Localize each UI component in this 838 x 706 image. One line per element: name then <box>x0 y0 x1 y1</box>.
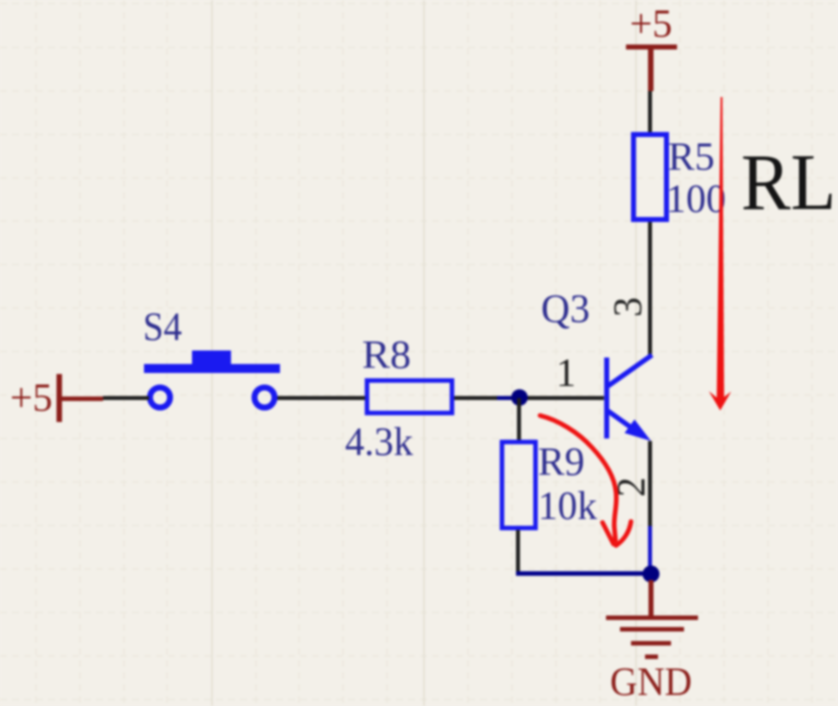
svg-text:S4: S4 <box>143 304 182 349</box>
svg-text:R9: R9 <box>538 439 585 484</box>
svg-text:R5: R5 <box>668 134 715 179</box>
svg-text:RL: RL <box>741 139 836 227</box>
svg-text:+5: +5 <box>10 375 53 420</box>
svg-text:GND: GND <box>610 659 692 704</box>
svg-text:100: 100 <box>666 176 726 221</box>
svg-text:Q3: Q3 <box>541 286 590 331</box>
svg-text:10k: 10k <box>538 483 597 528</box>
svg-text:R8: R8 <box>362 332 411 377</box>
svg-text:1: 1 <box>556 350 576 395</box>
svg-text:4.3k: 4.3k <box>345 419 413 464</box>
svg-text:+5: +5 <box>630 1 673 46</box>
svg-text:3: 3 <box>605 297 650 317</box>
